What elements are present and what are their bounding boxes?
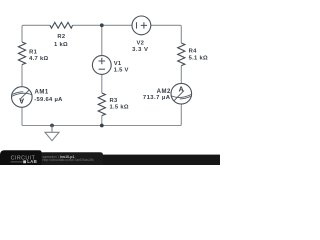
svg-text:A: A [19, 97, 24, 104]
resistor R4 (5.1 kOhm, right branch) [178, 43, 185, 66]
voltage source V1 circle [92, 56, 111, 75]
svg-text:1 kΩ: 1 kΩ [54, 42, 68, 48]
svg-text:V1: V1 [114, 61, 122, 67]
V2 plus sign [141, 22, 147, 28]
ground symbol triangle [45, 132, 59, 140]
svg-text:R2: R2 [57, 34, 65, 40]
AM1 meter needle [20, 90, 29, 99]
svg-text:4.7 kΩ: 4.7 kΩ [29, 56, 48, 62]
AM2 meter scale arc 2 [180, 96, 191, 99]
svg-text:5.1 kΩ: 5.1 kΩ [189, 55, 208, 61]
svg-text:R1: R1 [29, 50, 37, 56]
ground stub wire [51, 126, 53, 133]
svg-text:AM1: AM1 [35, 90, 49, 96]
svg-text:http://circuitlab.com/c7aef2fu: http://circuitlab.com/c7aef2fuku3fk [43, 158, 95, 162]
resistor R1 (4.7 kOhm, left branch) [18, 42, 25, 65]
AM1 meter scale arc (rotated 180) [11, 93, 32, 96]
svg-text:A: A [179, 87, 184, 94]
resistor R2 (1 kOhm, horizontal top) [50, 22, 73, 28]
ammeter AM2 circle [171, 83, 192, 104]
V2 minus sign (rotated vertical) [136, 22, 138, 28]
node junction ground [50, 124, 54, 128]
AM2 meter scale arc [171, 94, 192, 97]
resistor R3 (1.5 kOhm, middle branch) [98, 93, 105, 116]
svg-text:3.3 V: 3.3 V [132, 47, 148, 53]
wire middle branch upper (top node to V1) [101, 25, 103, 56]
logo dash line [11, 161, 23, 163]
wire middle branch lower (R3 to bottom node) [101, 116, 103, 126]
node junction top (middle branch to top rail) [100, 23, 104, 27]
V1 plus sign [99, 58, 106, 65]
ammeter AM1 circle [11, 87, 32, 108]
footer logo badge [0, 150, 42, 165]
svg-text:-59.64 µA: -59.64 µA [34, 97, 63, 103]
node junction bottom (middle branch to bottom rail) [100, 124, 104, 128]
wire left branch lower + bottom rail + right branch lower [22, 104, 181, 126]
AM1 meter scale arc 2 [12, 92, 23, 95]
svg-text:V2: V2 [136, 40, 144, 46]
footer base strip [0, 155, 220, 165]
svg-text:R3: R3 [110, 98, 118, 104]
footer credits badge [42, 152, 104, 165]
svg-text:713.7 µA: 713.7 µA [143, 95, 171, 101]
voltage source V2 circle [132, 16, 151, 35]
logo bolt square [23, 160, 26, 163]
wire right branch middle (R4 to AM2) [180, 66, 182, 84]
wire top-right with corner (V2 right terminal down to R4) [151, 25, 182, 43]
wire top-left horizontal with corner (to R2 left lead) [22, 25, 50, 42]
wire middle branch mid (V1 to R3) [101, 74, 103, 93]
svg-text:1.5 V: 1.5 V [114, 68, 129, 74]
wire top middle (R2 right lead to V2 left terminal) [73, 24, 133, 26]
wire left branch middle (R1 to AM1) [21, 65, 23, 87]
AM2 meter needle [174, 91, 184, 101]
svg-text:LAB: LAB [27, 159, 37, 164]
svg-text:1.5 kΩ: 1.5 kΩ [110, 105, 129, 111]
svg-text:R4: R4 [189, 49, 197, 55]
V1 minus sign [99, 68, 105, 70]
